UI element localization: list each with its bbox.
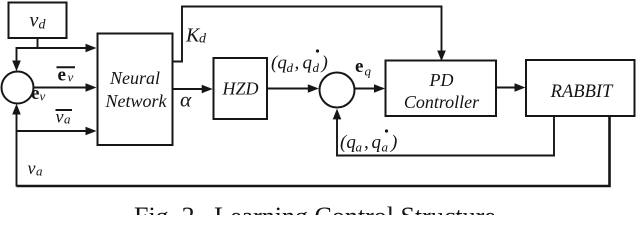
arrowhead into Neural Network (v_d line): [86, 44, 97, 53]
wire (q_d,q_d dot) from HZD to S2: [267, 88, 311, 90]
wire PD Controller to RABBIT: [496, 87, 518, 89]
arrowhead into PD Controller left (e_q line): [374, 84, 385, 93]
svg-text:d: d: [39, 18, 47, 33]
label e_v bar (above e_v wire): [57, 65, 76, 86]
label (q_a, q_a dot): [340, 129, 397, 154]
svg-text:e: e: [58, 65, 66, 86]
svg-text:e: e: [31, 83, 39, 104]
wire K_d from Neural Network to PD Controller: [173, 7, 442, 62]
svg-text:Fig. 2. Learning Control Stru: Fig. 2. Learning Control Structure: [134, 202, 496, 215]
svg-text:): ): [390, 132, 397, 153]
svg-text:,: ,: [295, 53, 300, 74]
arrowhead into S1 bottom: [12, 104, 21, 115]
label (q_d, q_d dot): [271, 49, 328, 75]
label K_d: [185, 25, 207, 47]
wire v_a feedback up into S1: [16, 113, 18, 187]
svg-text:α: α: [180, 88, 192, 112]
summing junction S2 (joint error): [320, 73, 355, 108]
arrowhead into RABBIT left: [515, 83, 526, 92]
svg-text:d: d: [313, 60, 320, 75]
block Neural Network: [98, 34, 173, 146]
wire v_d box down: [37, 38, 39, 48]
label e_q: [355, 56, 372, 79]
svg-text:d: d: [199, 32, 207, 47]
wire e_v from S1 to Neural Network: [34, 87, 88, 89]
block v_d: [9, 3, 67, 39]
label v_a bar (above v_a bar wire): [56, 107, 73, 127]
svg-text:v: v: [56, 107, 64, 127]
summing junction S1 (velocity error): [2, 72, 34, 104]
svg-text:q: q: [303, 53, 313, 74]
wire v_a bar to Neural Network: [17, 130, 88, 132]
label v_d: [30, 10, 47, 33]
svg-text:HZD: HZD: [221, 79, 258, 99]
svg-text:Network: Network: [105, 91, 168, 111]
arrowhead into Neural Network (v_a bar line): [86, 127, 97, 136]
svg-text:): ): [321, 53, 328, 74]
svg-text:a: a: [356, 140, 363, 155]
arrowhead into PD Controller top (K_d line): [437, 51, 446, 62]
svg-text:PD: PD: [429, 70, 454, 90]
label PD Controller: [404, 70, 480, 112]
svg-text:(q: (q: [340, 132, 356, 153]
block HZD: [214, 58, 268, 119]
arrowhead into S1 top: [12, 61, 21, 72]
arrowhead into HZD (alpha line): [202, 85, 213, 94]
label e_v (at S1 output): [31, 83, 46, 104]
svg-text:v: v: [40, 89, 46, 104]
svg-text:v: v: [68, 70, 74, 85]
label v_a (bottom left): [28, 158, 44, 179]
wire v_d branch to Neural Network: [17, 48, 88, 64]
wire v_a feedback from RABBIT (bottom long run): [17, 116, 610, 186]
svg-text:Neural: Neural: [109, 68, 160, 88]
block RABBIT: [526, 60, 635, 116]
svg-text:q: q: [365, 64, 372, 79]
svg-text:,: ,: [364, 132, 369, 153]
label Neural Network: [105, 68, 168, 111]
svg-text:q: q: [372, 132, 382, 153]
svg-text:RABBIT: RABBIT: [550, 82, 614, 102]
svg-text:e: e: [355, 56, 363, 77]
svg-text:v: v: [30, 10, 39, 32]
arrowhead into Neural Network (e_v line): [86, 83, 97, 92]
svg-text:(q: (q: [271, 53, 287, 74]
wire alpha from Neural Network to HZD: [173, 88, 205, 90]
svg-text:a: a: [64, 112, 71, 127]
svg-text:a: a: [36, 164, 43, 179]
arrowhead into S2 left: [308, 84, 319, 93]
svg-text:d: d: [287, 60, 294, 75]
wire (q_a,q_a dot) feedback from RABBIT to S2: [337, 116, 554, 156]
wire e_q from S2 to PD Controller: [355, 88, 378, 90]
svg-text:Controller: Controller: [404, 92, 480, 112]
svg-text:a: a: [382, 140, 389, 155]
arrowhead into S2 bottom (q_a line): [333, 109, 342, 120]
block PD Controller: [386, 61, 497, 117]
svg-text:v: v: [28, 158, 36, 178]
